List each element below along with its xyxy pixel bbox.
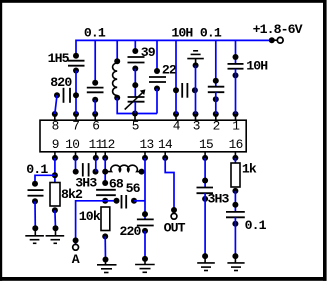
pin 13 (140, 137, 154, 161)
svg-text:10H: 10H (171, 26, 193, 41)
wire pin10 branch (75, 158, 77, 172)
wire 39 branch upper (134, 40, 136, 51)
svg-text:16: 16 (229, 137, 243, 152)
terminal OUT (164, 213, 186, 235)
wire 22 branch upper (156, 40, 158, 71)
svg-text:220: 220 (120, 224, 142, 239)
wire 22 to pin5 bus (156, 89, 158, 114)
wire pin1 branch upper (235, 40, 237, 64)
wire pin4 branch (175, 40, 177, 114)
wire 1k to 0.1 (234, 191, 236, 212)
wire pin2 branch upper (215, 40, 217, 86)
variable capacitor CV (125, 89, 146, 109)
pin 1 (232, 111, 240, 134)
wire 820 to pin8 (55, 95, 57, 114)
node pin5 junction (132, 111, 138, 117)
inductor L2 (pins12-13) (105, 165, 145, 174)
ground (pin16) (227, 253, 244, 270)
svg-text:9: 9 (52, 137, 59, 152)
svg-text:2: 2 (213, 119, 220, 134)
wire 10k to ground (104, 236, 106, 259)
svg-text:10: 10 (65, 137, 79, 152)
capacitor 10H (pin1) (228, 54, 269, 78)
svg-text:15: 15 (199, 137, 213, 152)
IC U1 body (40, 120, 246, 152)
svg-text:13: 13 (140, 137, 154, 152)
wire pin13 branch (144, 158, 146, 220)
node coil top (114, 58, 120, 64)
wire 0.1 to ground (234, 217, 236, 256)
svg-text:820: 820 (50, 75, 72, 90)
capacitor 0.1 (pin6) (87, 80, 104, 103)
svg-text:4: 4 (173, 119, 181, 134)
wire pin16 branch upper (234, 158, 236, 164)
wire varicap bottom (134, 102, 136, 114)
pin 6 (92, 111, 99, 134)
svg-text:0.1: 0.1 (26, 162, 48, 177)
pin 15 (199, 137, 213, 161)
wire pin11 branch (95, 158, 97, 172)
capacitor 0.1 (pin16) (226, 202, 267, 233)
capacitor 68 (96, 180, 116, 204)
pin 9 (52, 137, 59, 161)
svg-text:3H3: 3H3 (208, 192, 230, 207)
node A junction (73, 237, 79, 243)
ground (pin15) (197, 253, 215, 270)
pin 2 (213, 111, 220, 134)
wire 0.1 to ground (34, 201, 36, 228)
svg-text:10k: 10k (79, 209, 101, 224)
ground (0.1 pin9) (25, 225, 44, 243)
pin 12 (101, 137, 115, 161)
svg-text:12: 12 (101, 137, 115, 152)
pin 16 (229, 137, 243, 161)
wire 8k2 to ground (54, 210, 57, 228)
wire pin9 branch (54, 158, 56, 183)
svg-text:6: 6 (92, 119, 99, 134)
ground (8k2) (46, 225, 65, 243)
svg-text:1k: 1k (242, 161, 257, 176)
label 0.1 (pin2 cap) (200, 26, 222, 41)
svg-text:3: 3 (193, 119, 200, 134)
capacitor 0.1 (pin2) (208, 78, 225, 103)
label 68 (109, 176, 124, 191)
pin 3 (193, 111, 200, 134)
resistor 1k (231, 161, 257, 187)
node OUT junction (171, 207, 177, 213)
capacitor 39 (128, 45, 156, 71)
svg-text:0.1: 0.1 (245, 218, 267, 233)
svg-text:0.1: 0.1 (84, 26, 106, 41)
capacitor 220 (120, 211, 154, 239)
node 10k bottom (102, 233, 108, 239)
node coil bottom (114, 95, 120, 101)
resistor 10k (79, 207, 110, 231)
svg-text:1H5: 1H5 (48, 51, 70, 66)
svg-text:0.1: 0.1 (200, 26, 222, 41)
svg-text:7: 7 (72, 119, 79, 134)
svg-text:1: 1 (232, 119, 240, 134)
wire pin15 to ground (204, 193, 206, 256)
ground inverted (pin3) (187, 51, 204, 69)
wire coil branch upper (116, 40, 118, 61)
wire 39 to varicap (134, 69, 136, 98)
pin 4 (173, 111, 181, 134)
terminal +1.8-6V (253, 22, 303, 43)
resistor 8k2 (50, 183, 83, 207)
svg-text:22: 22 (162, 62, 177, 77)
pin 8 (52, 111, 59, 134)
wire 220 to ground (144, 231, 146, 259)
pin 14 (158, 137, 173, 161)
wire pin7 branch (75, 71, 77, 115)
svg-text:56: 56 (126, 181, 141, 196)
capacitor 56 (114, 181, 141, 209)
pin 10 (65, 137, 79, 161)
svg-text:14: 14 (158, 137, 173, 152)
svg-text:8: 8 (52, 119, 59, 134)
node varicap top (132, 82, 138, 88)
pin 11 (89, 137, 104, 161)
inductor L1 tank coil (113, 63, 118, 95)
node 820/pin7 junction (73, 92, 79, 98)
label 0.1 (pin9 cap) (26, 162, 48, 177)
ground (10k) (97, 257, 117, 273)
label 10H (171, 26, 193, 41)
ground (220) (135, 256, 155, 272)
node 1k bottom (232, 188, 238, 194)
capacitor 3H3 (pin15) (197, 178, 230, 207)
svg-text:A: A (72, 252, 80, 267)
svg-text:OUT: OUT (164, 221, 186, 236)
wire pin12 branch (104, 158, 106, 183)
capacitor 1H5 (48, 51, 85, 74)
pin 7 (72, 111, 79, 134)
wire A-terminal bus (76, 201, 106, 247)
node pin9 junction (52, 172, 58, 178)
wire coil bottom to pin5 bus (117, 98, 157, 114)
wire pin9 to 0.1 cap (35, 175, 55, 183)
wire pin15 branch upper (204, 158, 206, 188)
capacitor 3H3 (pins10-11) (73, 163, 99, 191)
wire pin1 branch lower (235, 69, 237, 114)
capacitor 0.1 (pin9) (28, 181, 44, 205)
wire supply rail (76, 40, 272, 55)
node supply junction (269, 37, 277, 43)
node pin4/coupling junction (173, 87, 179, 93)
pin 5 (132, 114, 139, 134)
capacitor 22 (149, 62, 177, 91)
svg-text:3H3: 3H3 (75, 176, 97, 191)
wire pin14 to OUT (165, 158, 174, 210)
svg-text:10H: 10H (246, 59, 268, 74)
wire 56 to pin13 (134, 200, 145, 202)
node coil left (102, 169, 108, 175)
capacitor coupling pin4-pin3 (182, 83, 198, 98)
svg-text:5: 5 (132, 119, 139, 134)
node 8k2 bottom (52, 207, 58, 213)
wire pin3 branch (195, 65, 197, 114)
capacitor 820 (50, 75, 72, 103)
terminal A (72, 244, 80, 266)
label 0.1 (pin6 cap) (84, 26, 106, 41)
wire pin6 branch lower (94, 100, 96, 114)
wire 68 to 56 (105, 200, 116, 202)
wire pin2 branch lower (215, 92, 217, 114)
svg-text:39: 39 (141, 45, 156, 60)
svg-text:+1.8-6V: +1.8-6V (253, 22, 303, 37)
wire pin6 branch upper (94, 40, 96, 82)
